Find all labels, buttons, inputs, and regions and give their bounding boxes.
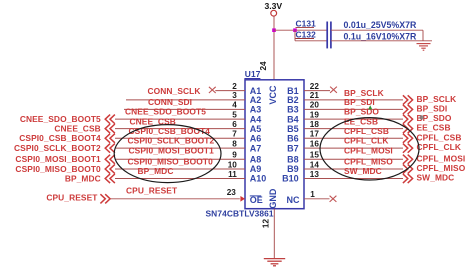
off-page connector chevron CSPI0_MISO_BOOT0 port [105, 164, 115, 173]
svg-text:A7: A7 [250, 143, 262, 153]
off-page connector chevron right row pin20 [403, 105, 413, 114]
off-page connector chevron right row pin21 [403, 95, 413, 104]
junction on 3.3V rail at C131 branch [272, 28, 276, 32]
svg-text:1: 1 [310, 190, 315, 199]
svg-text:BP_MDC: BP_MDC [138, 166, 174, 176]
off-page connector chevron BP_MDC port [105, 174, 115, 183]
svg-text:CSPI0_MOSI_BOOT1: CSPI0_MOSI_BOOT1 [15, 154, 101, 164]
svg-text:CPFL_CSB: CPFL_CSB [344, 126, 389, 136]
no-connect X on pin 1 [330, 196, 337, 202]
wire pin5 [115, 118, 245, 120]
wire pin10 [115, 168, 245, 170]
svg-text:CNEE_SDO_BOOT5: CNEE_SDO_BOOT5 [125, 107, 206, 117]
svg-text:BP_SDO: BP_SDO [344, 107, 379, 117]
svg-text:OE: OE [250, 195, 263, 205]
svg-text:17: 17 [310, 130, 320, 139]
wire pin2 stub from no-connect X [215, 90, 245, 92]
svg-text:SW_MDC: SW_MDC [417, 173, 455, 183]
pin name OE with overline [250, 195, 263, 205]
off-page connector chevron CNEE_CSB port [105, 124, 115, 133]
svg-text:BP_MDC: BP_MDC [65, 173, 101, 183]
svg-text:CPFL_MISO: CPFL_MISO [344, 156, 393, 166]
gray dot artifact on BP_SDO port label [419, 115, 423, 119]
svg-text:A2: A2 [250, 95, 262, 105]
highlight ellipse around CSPI0 group (left) [114, 125, 221, 183]
svg-text:10: 10 [228, 160, 238, 169]
wire pin18 [304, 128, 403, 130]
svg-text:9: 9 [232, 151, 237, 160]
svg-text:CPU_RESET: CPU_RESET [126, 185, 178, 195]
svg-text:CSPI0_CSB_BOOT4: CSPI0_CSB_BOOT4 [19, 133, 101, 143]
svg-text:CPU_RESET: CPU_RESET [46, 193, 98, 203]
wire C131 right plate to ground drop [331, 29, 423, 31]
svg-text:A8: A8 [250, 154, 262, 164]
svg-text:EE_CSB: EE_CSB [417, 123, 451, 133]
wire pin16 [304, 147, 403, 149]
svg-text:CPFL_CLK: CPFL_CLK [344, 135, 389, 145]
no-connect X on pin 22 [330, 87, 337, 93]
svg-text:BP_SCLK: BP_SCLK [417, 94, 457, 104]
svg-text:B7: B7 [287, 143, 299, 153]
off-page connector chevron CNEE_SDO_BOOT5 port [105, 115, 115, 124]
svg-text:CNEE_CSB: CNEE_CSB [54, 123, 100, 133]
svg-text:19: 19 [310, 110, 320, 119]
wire pin14 [304, 168, 403, 170]
svg-text:BP_SDI: BP_SDI [417, 103, 448, 113]
wire 3.3V to C131 left plate [274, 29, 327, 31]
wire 3.3V rail vertical to VCC pin [273, 16, 275, 80]
svg-text:A6: A6 [250, 133, 262, 143]
svg-text:24: 24 [259, 61, 268, 71]
wire pin3 CONN_SDI [126, 99, 245, 101]
svg-text:CSPI0_SCLK_BOOT2: CSPI0_SCLK_BOOT2 [128, 135, 215, 145]
svg-text:15: 15 [310, 151, 320, 160]
svg-text:18: 18 [310, 120, 320, 129]
svg-text:C131: C131 [296, 18, 317, 28]
svg-text:21: 21 [310, 91, 320, 100]
power symbol 3.3V circle [271, 10, 277, 16]
svg-text:CPFL_MOSI: CPFL_MOSI [344, 145, 393, 155]
wire to C132 left plate [295, 40, 327, 42]
svg-text:11: 11 [228, 170, 237, 179]
no-connect X on pin 2 (CONN_SCLK) [209, 87, 216, 93]
svg-text:2: 2 [232, 82, 237, 91]
wire pin8 [115, 147, 245, 149]
wire pin7 [115, 137, 245, 139]
off-page connector chevron CSPI0_CSB_BOOT4 port [105, 134, 115, 143]
svg-text:3.3V: 3.3V [264, 1, 282, 11]
label C132 [296, 29, 317, 39]
svg-text:CONN_SDI: CONN_SDI [148, 97, 192, 107]
svg-text:SW_MDC: SW_MDC [344, 166, 382, 176]
reference designator U17 [244, 69, 260, 79]
wire pin23 CPU_RESET [111, 198, 240, 200]
capacitor C131 plates (overlapping C132) [327, 22, 331, 49]
svg-text:CONN_SCLK: CONN_SCLK [148, 86, 201, 96]
svg-text:A10: A10 [250, 174, 267, 184]
svg-text:B2: B2 [287, 95, 299, 105]
svg-text:B3: B3 [287, 105, 299, 115]
wire pin21 [304, 99, 403, 101]
off-page connector chevron CSPI0_MOSI_BOOT1 port [105, 155, 115, 164]
svg-text:B6: B6 [287, 133, 299, 143]
svg-text:B10: B10 [282, 174, 299, 184]
off-page connector chevron right row pin18 [403, 124, 413, 133]
ground symbol for capacitors [417, 44, 431, 51]
svg-text:CPFL_CSB: CPFL_CSB [417, 132, 462, 142]
svg-text:B8: B8 [287, 154, 299, 164]
svg-text:B9: B9 [287, 164, 299, 174]
svg-text:CSPI0_MISO_BOOT0: CSPI0_MISO_BOOT0 [15, 164, 101, 174]
svg-text:A9: A9 [250, 164, 262, 174]
svg-text:6: 6 [232, 120, 237, 129]
svg-text:13: 13 [310, 170, 320, 179]
wire C132 right plate extension [331, 40, 432, 42]
off-page connector chevron right row pin13 [403, 174, 413, 183]
svg-text:CPFL_MISO: CPFL_MISO [417, 163, 466, 173]
wire pin15 [304, 158, 403, 160]
junction at C132 branch [293, 28, 297, 32]
off-page connector chevron right row pin14 [403, 164, 413, 173]
svg-text:20: 20 [310, 101, 320, 110]
svg-text:CSPI0_SCLK_BOOT2: CSPI0_SCLK_BOOT2 [14, 143, 101, 153]
off-page connector chevron right row pin15 [403, 155, 413, 164]
wire pin19 [304, 118, 403, 120]
off-page connector chevron right row pin19 [403, 115, 413, 124]
wire pin1 NC stub [304, 198, 330, 200]
wire GND pin down [273, 209, 275, 258]
wire pin6 [115, 128, 245, 130]
svg-text:23: 23 [227, 188, 237, 197]
ground symbol for U17 [264, 259, 285, 266]
off-page connector chevron right row pin16 [403, 144, 413, 153]
svg-text:GND: GND [268, 188, 278, 209]
off-page connector chevron right row pin17 [403, 134, 413, 143]
wire pin9 [115, 158, 245, 160]
svg-text:8: 8 [232, 139, 237, 148]
wire pin22 stub to no-connect X [304, 90, 330, 92]
svg-text:0.1u_16V10%X7R: 0.1u_16V10%X7R [344, 31, 418, 41]
wire pin20 [304, 108, 403, 110]
svg-text:5: 5 [232, 110, 237, 119]
arrowhead into OE pin [240, 196, 245, 202]
svg-text:VCC: VCC [268, 85, 278, 105]
svg-text:CSPI0_MOSI_BOOT1: CSPI0_MOSI_BOOT1 [129, 145, 215, 155]
svg-text:CPFL_CLK: CPFL_CLK [417, 142, 462, 152]
svg-text:7: 7 [232, 130, 237, 139]
svg-text:4: 4 [232, 101, 237, 110]
op-amp,bus-switch U17 body [245, 80, 304, 209]
highlight ellipse around CPFL group (right) [320, 118, 419, 180]
wire vertical drop joining cap outputs [422, 30, 424, 41]
off-page connector chevron CPU_RESET [100, 194, 110, 203]
wire pin17 [304, 137, 403, 139]
svg-text:14: 14 [310, 160, 320, 169]
svg-text:B5: B5 [287, 124, 299, 134]
svg-text:SN74CBTLV3861: SN74CBTLV3861 [206, 209, 274, 219]
green probe marker near BP_SDO wire [368, 105, 372, 109]
svg-text:A5: A5 [250, 124, 262, 134]
off-page connector chevron CSPI0_SCLK_BOOT2 port [105, 144, 115, 153]
svg-text:CSPI0_CSB_BOOT4: CSPI0_CSB_BOOT4 [129, 126, 211, 136]
svg-text:0.01u_25V5%X7R: 0.01u_25V5%X7R [344, 20, 418, 30]
label C131 [296, 18, 317, 28]
wire pin4 CNEE_SDO_BOOT5 [124, 108, 245, 110]
svg-text:NC: NC [287, 195, 300, 205]
svg-text:22: 22 [310, 82, 320, 91]
svg-text:3: 3 [232, 91, 237, 100]
wire pin13 [304, 178, 403, 180]
svg-text:12: 12 [262, 219, 271, 229]
svg-text:CSPI0_MISO_BOOT0: CSPI0_MISO_BOOT0 [128, 156, 214, 166]
wire pin11 [115, 178, 245, 180]
wire branch down to C132 row [294, 30, 296, 41]
svg-text:A3: A3 [250, 105, 262, 115]
svg-text:C132: C132 [296, 29, 317, 39]
svg-text:CPFL_MOSI: CPFL_MOSI [417, 153, 466, 163]
svg-text:16: 16 [310, 139, 320, 148]
